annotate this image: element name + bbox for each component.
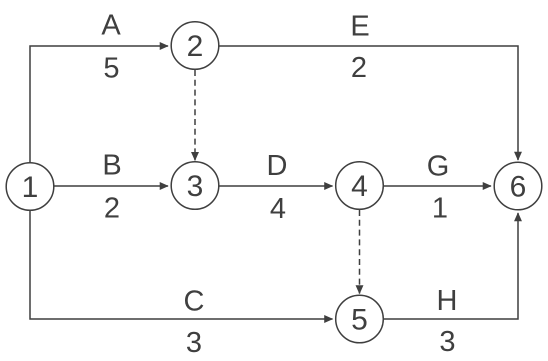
svg-text:3: 3: [187, 170, 204, 203]
node 6: [494, 162, 542, 210]
wire 5-6 (activity H path): [384, 213, 519, 319]
node 1: [6, 163, 54, 211]
svg-text:4: 4: [351, 170, 368, 203]
wire 1-3 (activity B path): [54, 185, 168, 187]
svg-text:2: 2: [351, 52, 367, 84]
svg-text:2: 2: [187, 30, 204, 63]
svg-text:1: 1: [432, 193, 448, 225]
svg-text:5: 5: [103, 53, 119, 85]
svg-text:D: D: [267, 150, 288, 182]
wire 3-4 (activity D path): [219, 185, 333, 187]
svg-text:4: 4: [270, 193, 286, 225]
wire 1-5 (activity C path): [30, 210, 333, 319]
svg-text:C: C: [184, 286, 205, 318]
svg-text:3: 3: [186, 327, 202, 359]
svg-text:B: B: [102, 150, 121, 182]
svg-text:H: H: [437, 285, 458, 317]
wire 2-3 dashed dummy: [194, 70, 196, 160]
svg-text:6: 6: [510, 171, 527, 204]
svg-text:1: 1: [22, 171, 39, 204]
node 2: [171, 22, 219, 70]
svg-text:5: 5: [351, 304, 368, 337]
wire 1-2 (activity A path): [30, 46, 168, 163]
wire 4-5 dashed dummy: [359, 210, 361, 294]
node 5: [336, 295, 384, 343]
node 3: [171, 162, 219, 210]
node 4: [336, 162, 384, 210]
svg-text:G: G: [427, 151, 450, 183]
svg-text:2: 2: [104, 193, 120, 225]
svg-text:3: 3: [439, 326, 455, 358]
svg-text:E: E: [350, 11, 369, 43]
wire 2-6 (activity E path): [219, 46, 518, 160]
svg-text:A: A: [101, 10, 121, 42]
wire 4-6 (activity G path): [384, 185, 492, 187]
